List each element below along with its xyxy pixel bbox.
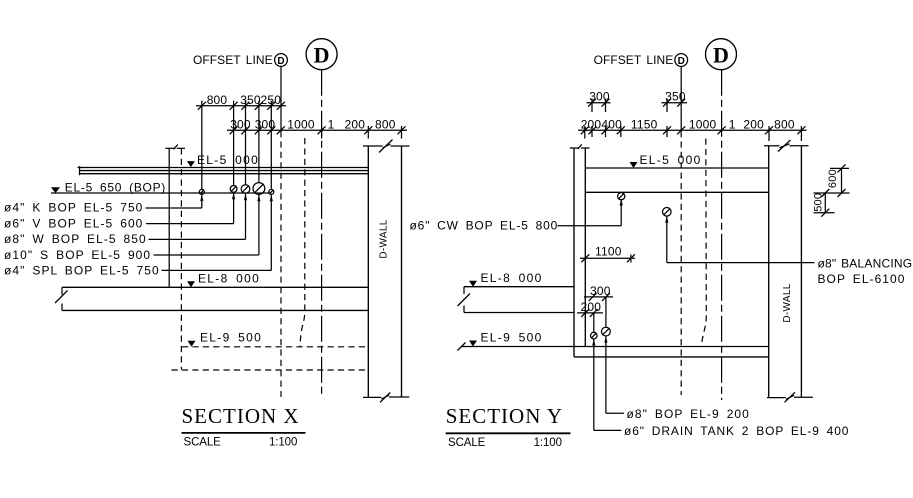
- tank floor bottom line right: [574, 356, 769, 358]
- pipe circle SPL left: [269, 189, 274, 194]
- pipe circle K left: [199, 189, 204, 194]
- dimension row 2 left (300 300 1000 1 200 800): [227, 118, 407, 139]
- grid bubble D right: [706, 39, 737, 70]
- label CW with leader: [410, 199, 623, 233]
- svg-text:ø8" BALANCING: ø8" BALANCING: [818, 257, 913, 271]
- svg-text:1100: 1100: [595, 244, 622, 258]
- svg-text:800: 800: [207, 93, 228, 107]
- label 8in BOP EL-9 200: [606, 407, 750, 421]
- svg-text:D: D: [277, 56, 284, 67]
- svg-text:1:100: 1:100: [269, 437, 297, 449]
- svg-text:350: 350: [240, 93, 261, 107]
- label balancing: [818, 257, 913, 287]
- label SPL with leader: [4, 195, 273, 278]
- svg-text:SCALE: SCALE: [448, 437, 486, 449]
- svg-text:D-WALL: D-WALL: [379, 219, 390, 258]
- offset line bubble D right: [675, 54, 688, 67]
- drain pipe circle 6in right: [591, 313, 598, 339]
- svg-text:EL-5 000: EL-5 000: [640, 153, 702, 167]
- drain pipe circle 8in right: [602, 297, 611, 336]
- svg-text:OFFSET LINE: OFFSET LINE: [594, 53, 674, 67]
- offset line vertical left: [280, 66, 282, 131]
- svg-text:800: 800: [375, 118, 396, 132]
- svg-text:200: 200: [580, 300, 601, 314]
- svg-text:200: 200: [344, 118, 365, 132]
- hidden bottom line left: [172, 369, 369, 371]
- label 6in DRAIN TANK 2: [594, 424, 850, 438]
- drain pipe 8in drop with arrow: [604, 336, 607, 413]
- dimension 1100 right: [580, 244, 635, 262]
- dimension row 1 left (800 350 250): [196, 93, 286, 110]
- svg-text:EL-8 000: EL-8 000: [481, 271, 543, 285]
- pipe circle V left: [230, 186, 237, 193]
- svg-text:EL-9 500: EL-9 500: [481, 331, 543, 345]
- D-wall right: [764, 140, 813, 402]
- svg-text:1:100: 1:100: [534, 437, 562, 449]
- floor line EL-9 500 right: [458, 343, 769, 351]
- pit inner wall line right: [584, 148, 586, 347]
- drain pipe 6in drop with arrow: [592, 339, 595, 431]
- dimension row 2 right (200 400 1150 1000 1 200 800): [578, 118, 807, 141]
- svg-text:SCALE: SCALE: [184, 437, 222, 449]
- SECTION Y : right drawing: [410, 39, 913, 449]
- offset line bubble D left: [275, 54, 288, 67]
- svg-text:ø8" BOP EL-9 200: ø8" BOP EL-9 200: [627, 407, 750, 421]
- label V with leader: [4, 193, 235, 231]
- svg-text:SECTION X: SECTION X: [182, 404, 300, 428]
- title SECTION Y: [446, 404, 571, 449]
- svg-text:500: 500: [813, 193, 825, 212]
- svg-text:EL-8 000: EL-8 000: [198, 272, 260, 286]
- svg-text:ø4" K BOP EL-5 750: ø4" K BOP EL-5 750: [4, 201, 143, 215]
- label W with leader: [4, 194, 247, 246]
- svg-text:ø6" V BOP EL-5 600: ø6" V BOP EL-5 600: [4, 216, 143, 230]
- svg-text:350: 350: [665, 90, 686, 104]
- svg-text:ø4" SPL BOP EL-5 750: ø4" SPL BOP EL-5 750: [4, 263, 160, 277]
- dimension 200 lower right: [577, 300, 603, 317]
- inner wall solid line left: [168, 148, 170, 286]
- svg-text:EL-9 500: EL-9 500: [200, 331, 262, 345]
- dimension 500 vertical right: [813, 189, 850, 217]
- pit outer wall line right: [573, 148, 575, 357]
- svg-text:OFFSET LINE: OFFSET LINE: [193, 53, 273, 67]
- pipe circle S left: [253, 183, 265, 195]
- svg-text:ø6" DRAIN TANK 2 BOP EL-9: ø6" DRAIN TANK 2 BOP EL-9 400: [624, 424, 849, 438]
- level marker EL-9 500 right: [469, 331, 543, 347]
- wall top tick symbol left: [166, 145, 186, 150]
- wall top tick symbol right: [570, 144, 590, 149]
- slab triple line left: [78, 166, 369, 175]
- title SECTION X: [182, 404, 306, 449]
- svg-text:D-WALL: D-WALL: [782, 283, 793, 322]
- hidden wavy pipe line right: [702, 139, 707, 347]
- svg-text:ø6" CW BOP EL-5 800: ø6" CW BOP EL-5 800: [410, 219, 559, 233]
- offset line vertical right: [680, 66, 682, 131]
- level marker EL-5 000 right: [630, 153, 702, 168]
- svg-text:1000: 1000: [689, 118, 717, 132]
- svg-text:1000: 1000: [287, 118, 315, 132]
- svg-text:D: D: [314, 42, 330, 67]
- hidden floor line EL-9 500 left: [182, 346, 368, 348]
- svg-text:ø8" W BOP EL-5 850: ø8" W BOP EL-5 850: [4, 232, 147, 246]
- svg-text:D: D: [678, 56, 685, 67]
- svg-text:BOP EL-6100: BOP EL-6100: [818, 272, 906, 286]
- level marker EL-8 000 left: [187, 272, 260, 288]
- svg-text:ø10" S BOP EL-5 900: ø10" S BOP EL-5 900: [4, 248, 151, 262]
- svg-text:300: 300: [589, 90, 610, 104]
- svg-text:1: 1: [729, 118, 736, 132]
- svg-text:200: 200: [743, 118, 764, 132]
- pipe circle W left: [241, 185, 250, 194]
- svg-text:300: 300: [590, 284, 611, 298]
- level marker EL-9 500 left: [188, 331, 263, 347]
- svg-text:300: 300: [255, 118, 276, 132]
- svg-text:600: 600: [827, 169, 839, 188]
- svg-text:EL-5 000: EL-5 000: [197, 153, 259, 167]
- pipe circle balancing right: [663, 208, 672, 217]
- svg-text:400: 400: [601, 118, 622, 132]
- EL-8 floor slab right: [458, 287, 575, 313]
- svg-text:1150: 1150: [631, 118, 658, 132]
- svg-text:D: D: [713, 42, 729, 67]
- inner wall hidden line left: [180, 148, 182, 369]
- D-wall left: [363, 140, 410, 403]
- level marker EL-5 000 left: [187, 153, 259, 167]
- BOP pipe run line left: [51, 192, 271, 194]
- dimension 300 lower right: [584, 284, 613, 301]
- svg-text:1: 1: [328, 118, 335, 132]
- svg-text:200: 200: [581, 118, 602, 132]
- svg-text:EL-5 650 (BOP): EL-5 650 (BOP): [65, 180, 166, 194]
- EL-8 floor slab left: [55, 287, 368, 310]
- level marker EL-8 000 right: [469, 271, 543, 287]
- grid centerline D left: [321, 70, 323, 397]
- slab right: [585, 168, 768, 192]
- label K with leader: [4, 195, 203, 215]
- svg-text:SECTION Y: SECTION Y: [446, 404, 563, 428]
- balancing pipe drop with leader: [665, 216, 814, 263]
- grid centerline D right: [721, 70, 723, 400]
- dimension 600 vertical right: [827, 164, 849, 193]
- dimension 300 top right: [587, 90, 611, 113]
- dimension 350 top right: [662, 90, 688, 113]
- SECTION X : left drawing: [4, 39, 410, 449]
- pipe circle CW right: [618, 193, 625, 200]
- svg-text:800: 800: [774, 118, 795, 132]
- label S with leader: [4, 195, 261, 262]
- hidden wavy pipe line left: [300, 138, 305, 347]
- pipe risers above slab left: [202, 101, 271, 190]
- grid bubble D left: [306, 39, 337, 70]
- level marker EL-5 650 BOP left: [51, 180, 166, 194]
